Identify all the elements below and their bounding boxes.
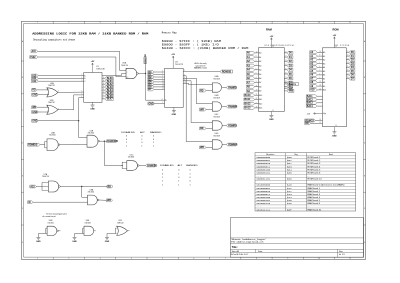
svg-text:74HC32: 74HC32 — [48, 85, 55, 87]
svg-text:BANKWR: BANKWR — [107, 140, 118, 143]
wire U2A output to U1 E1 — [58, 91, 84, 93]
svg-text:Id: 1/1: Id: 1/1 — [339, 254, 345, 256]
svg-text:12: 12 — [347, 55, 349, 57]
note text about banking — [194, 62, 207, 70]
A15 input label to U7A — [30, 185, 37, 188]
svg-text:A8: A8 — [259, 85, 261, 88]
svg-text:A5: A5 — [323, 70, 325, 73]
unused gates note text — [42, 212, 66, 218]
svg-text:74LS00: 74LS00 — [49, 134, 56, 136]
svg-text:B: B — [84, 78, 86, 80]
svg-text:GND: GND — [90, 109, 95, 111]
svg-text:6: 6 — [256, 68, 257, 70]
svg-text:BA11: BA11 — [245, 98, 251, 101]
svg-text:2: 2 — [127, 72, 128, 74]
svg-text:0: 0 — [162, 173, 163, 175]
svg-text:23: 23 — [256, 98, 258, 100]
U6B output label RAMWR — [222, 106, 226, 108]
wire U5B output to BANKWR label — [100, 140, 107, 142]
svg-text:14: 14 — [347, 62, 349, 64]
IO input label to U8A — [28, 201, 33, 204]
ROMDIS output label right of U3 — [220, 70, 233, 73]
wire PHI2 down to U9A input — [38, 57, 126, 77]
svg-text:$05: $05 — [287, 172, 292, 175]
svg-text:ROMCS: ROMCS — [305, 120, 314, 122]
svg-text:A1: A1 — [323, 55, 325, 58]
svg-text:74LS273: 74LS273 — [175, 64, 184, 66]
svg-text:BA11: BA11 — [307, 95, 313, 98]
svg-text:9: 9 — [319, 55, 320, 57]
svg-text:ADDRESSING LOGIC FOR 32KB RAM: ADDRESSING LOGIC FOR 32KB RAM / 31KB BAN… — [32, 32, 148, 37]
svg-text:11: 11 — [161, 99, 163, 101]
svg-text:Title:: Title: — [232, 246, 238, 249]
wire U5C output to BANKED label — [139, 165, 145, 167]
svg-text:%00001101: %00001101 — [256, 178, 271, 181]
svg-text:25: 25 — [256, 85, 258, 87]
svg-text:15: 15 — [347, 66, 349, 68]
U6B input label WR — [200, 108, 207, 111]
svg-text:ROMDIS: ROMDIS — [222, 71, 232, 73]
svg-text:8: 8 — [103, 98, 104, 100]
svg-text:$5F: $5F — [287, 209, 292, 212]
svg-text:74LS00: 74LS00 — [88, 192, 95, 194]
svg-text:RAM bank 4: RAM bank 4 — [308, 196, 321, 199]
svg-text:ROM bank 3: ROM bank 3 — [308, 163, 322, 165]
svg-text:9: 9 — [287, 258, 288, 260]
WR output label — [107, 199, 113, 202]
ROMDIS input label — [28, 143, 40, 146]
svg-text:DISABLED: DISABLED — [121, 132, 135, 135]
svg-text:0: 0 — [162, 170, 163, 172]
bank mode table 2 — [160, 165, 198, 187]
svg-text:Date:: Date: — [258, 250, 263, 253]
svg-text:A15: A15 — [32, 50, 37, 53]
U3 Q0 wire to ROMDIS label — [183, 71, 220, 73]
svg-text:BA13: BA13 — [307, 102, 314, 105]
svg-text:74HC138: 74HC138 — [96, 68, 105, 70]
svg-text:5: 5 — [256, 73, 257, 75]
svg-text:10: 10 — [103, 92, 105, 94]
svg-text:DISABLED: DISABLED — [160, 165, 174, 168]
svg-text:2: 2 — [81, 77, 82, 79]
svg-text:$46: $46 — [287, 202, 292, 205]
U4B ground symbol — [36, 236, 40, 238]
svg-text:BANKED: BANKED — [186, 165, 198, 168]
ROM GND symbol — [333, 127, 335, 132]
svg-text:GND: GND — [72, 241, 77, 243]
global label PHI2 — [30, 56, 38, 59]
svg-text:BA12: BA12 — [245, 103, 252, 106]
svg-text:11: 11 — [349, 22, 351, 24]
ROM chip select labels ROMCS RD — [305, 119, 316, 122]
svg-text:Vpp: Vpp — [323, 113, 326, 115]
svg-text:11: 11 — [162, 81, 164, 83]
svg-text:16: 16 — [347, 70, 349, 72]
svg-text:0: 0 — [189, 177, 190, 179]
U6D output label ROMWR — [222, 144, 226, 146]
svg-text:15: 15 — [285, 68, 287, 70]
svg-text:$8400 - $FFFF : (31KB) BANKED: $8400 - $FFFF : (31KB) BANKED ROM / RAM — [162, 47, 249, 50]
svg-text:Tie the unused gate pins: Tie the unused gate pins — [46, 212, 67, 215]
svg-text:GND: GND — [269, 119, 274, 121]
svg-text:1: 1 — [189, 184, 190, 186]
svg-text:ROM bank 1: ROM bank 1 — [308, 157, 322, 159]
U1 output pins Y0-Y7 with labels — [102, 77, 105, 79]
svg-text:GND: GND — [289, 91, 294, 93]
U6A input label RD — [200, 89, 207, 92]
svg-text:0: 0 — [126, 139, 127, 141]
svg-text:5: 5 — [162, 22, 163, 24]
svg-text:13: 13 — [103, 83, 105, 85]
svg-text:4: 4 — [256, 77, 257, 79]
wire U4A out to U5B — [60, 143, 87, 145]
svg-text:17: 17 — [162, 88, 164, 90]
title block lines — [230, 237, 363, 239]
svg-text:5: 5 — [81, 94, 82, 96]
svg-text:A1: A1 — [259, 56, 261, 59]
wire U5B branch down to U5C input — [104, 141, 122, 165]
svg-text:12: 12 — [285, 56, 287, 58]
U6C input label RD — [200, 127, 207, 130]
svg-text:1: 1 — [178, 184, 179, 186]
svg-text:1: 1 — [37, 258, 38, 260]
svg-text:A8: A8 — [323, 81, 325, 84]
svg-text:1: 1 — [127, 69, 128, 71]
svg-text:74HC32: 74HC32 — [48, 102, 55, 104]
svg-text:8: 8 — [256, 60, 257, 62]
wire U2B output to U1 E2 — [58, 95, 84, 110]
svg-text:10: 10 — [318, 22, 320, 24]
svg-text:Rev:: Rev: — [339, 251, 344, 253]
svg-text:GND: GND — [172, 114, 177, 116]
frame zone ticks left and right — [21, 60, 23, 62]
svg-text:F: F — [364, 208, 365, 210]
svg-text:26: 26 — [256, 107, 258, 109]
svg-text:1: 1 — [153, 145, 154, 147]
svg-text:File: address_logic.kicad_sch: File: address_logic.kicad_sch — [231, 241, 264, 244]
svg-text:15: 15 — [162, 86, 164, 88]
svg-text:13: 13 — [162, 83, 164, 85]
svg-text:GND: GND — [32, 112, 37, 114]
svg-text:A3: A3 — [323, 62, 325, 65]
U3 Q output staircase wires to U6 gates — [183, 76, 212, 142]
svg-text:1: 1 — [162, 184, 163, 186]
svg-text:KiCad E.D.A. 4.0.7: KiCad E.D.A. 4.0.7 — [231, 253, 249, 256]
svg-text:A4: A4 — [259, 69, 261, 72]
svg-text:ROM bank 6: ROM bank 6 — [308, 172, 322, 174]
U2A input label GND — [32, 93, 39, 96]
svg-text:Bank: Bank — [329, 154, 333, 156]
svg-text:1: 1 — [126, 142, 127, 144]
svg-text:20: 20 — [319, 119, 321, 121]
U3 CLR label GND — [148, 102, 155, 105]
svg-text:Size: A4: Size: A4 — [232, 250, 240, 253]
svg-text:10: 10 — [318, 258, 320, 260]
U2D input tie to ground — [114, 228, 116, 233]
wire U8A out to WR label — [99, 199, 107, 201]
svg-text:1: 1 — [162, 181, 163, 183]
svg-text:3: 3 — [162, 71, 163, 73]
U3 Q4 wire to U6A — [183, 83, 212, 84]
U2B input label GND — [32, 111, 39, 114]
U2B input label WR — [32, 106, 37, 109]
ROM data labels D0-D7 — [346, 51, 349, 53]
BANKED output label — [145, 164, 155, 167]
svg-text:5: 5 — [162, 258, 163, 260]
global label GND long net — [32, 119, 39, 122]
svg-text:A3: A3 — [259, 64, 261, 67]
wire A15 to U9A input — [38, 51, 126, 70]
svg-text:BA12: BA12 — [307, 98, 314, 101]
svg-text:A10: A10 — [310, 89, 315, 92]
svg-text:24: 24 — [319, 85, 321, 87]
svg-text:BANKED: BANKED — [147, 164, 157, 167]
svg-text:74HC10: 74HC10 — [121, 65, 128, 67]
svg-text:Sheet: /address_logic/: Sheet: /address_logic/ — [231, 238, 265, 241]
svg-text:12: 12 — [103, 86, 105, 88]
svg-text:22: 22 — [319, 122, 321, 124]
svg-text:ROM bank 14: ROM bank 14 — [308, 179, 323, 181]
svg-text:6: 6 — [193, 258, 194, 260]
svg-text:ALT: ALT — [140, 132, 145, 135]
svg-text:0: 0 — [189, 170, 190, 172]
svg-text:12: 12 — [184, 82, 186, 84]
U6D input label WR — [200, 146, 207, 149]
svg-text:BANKED mode: BANKED mode — [194, 67, 207, 70]
svg-text:ROM bank 5: ROM bank 5 — [308, 169, 322, 171]
svg-text:WR: WR — [200, 147, 204, 149]
svg-text:ROMRD: ROMRD — [228, 125, 237, 127]
svg-text:6: 6 — [184, 77, 185, 79]
vertical clock net wire — [145, 64, 147, 101]
svg-text:Reg: Reg — [294, 154, 297, 156]
svg-text:4: 4 — [81, 91, 82, 93]
svg-text:A15: A15 — [30, 185, 35, 188]
svg-text:2: 2 — [184, 70, 185, 72]
svg-text:9: 9 — [287, 22, 288, 24]
svg-text:Memory Map: Memory Map — [162, 32, 177, 35]
svg-text:13: 13 — [127, 77, 129, 79]
memory map note — [162, 32, 249, 50]
svg-text:7: 7 — [162, 76, 163, 78]
svg-text:A7: A7 — [323, 77, 325, 80]
svg-text:3: 3 — [256, 81, 257, 83]
RAM address input labels — [246, 51, 254, 54]
svg-text:ALT: ALT — [178, 165, 183, 168]
svg-text:6: 6 — [193, 22, 194, 24]
svg-text:BANKWR: BANKWR — [144, 54, 147, 64]
svg-text:PHI2: PHI2 — [30, 57, 36, 59]
svg-text:GND: GND — [32, 121, 37, 123]
svg-text:15: 15 — [103, 77, 105, 79]
svg-text:A0: A0 — [259, 52, 261, 55]
svg-text:3: 3 — [100, 22, 101, 24]
svg-text:14: 14 — [272, 110, 274, 112]
svg-text:A12: A12 — [32, 80, 37, 83]
svg-text:3: 3 — [319, 77, 320, 79]
U6E input tie to ground — [82, 228, 84, 233]
svg-text:1: 1 — [81, 74, 82, 76]
U3 data input labels D0-D7 — [148, 71, 154, 74]
svg-text:RAM bank 1: RAM bank 1 — [308, 187, 321, 190]
svg-text:0: 0 — [141, 136, 142, 138]
svg-text:14: 14 — [285, 64, 287, 66]
svg-text:Decoupling capacitors not draw: Decoupling capacitors not drawn — [33, 39, 76, 42]
svg-text:BANKED: BANKED — [150, 132, 162, 135]
sheet border inner frame — [24, 24, 364, 258]
ROM banked address labels BA11-BA14 — [306, 95, 317, 98]
svg-text:A: A — [84, 74, 86, 77]
svg-text:74LS08: 74LS08 — [213, 135, 220, 137]
wire U9A output junction to clock net — [138, 73, 145, 75]
svg-text:74HC10: 74HC10 — [42, 176, 49, 178]
svg-text:4: 4 — [131, 22, 132, 24]
bank mode table 1 — [121, 132, 161, 148]
svg-text:8: 8 — [319, 58, 320, 60]
svg-text:ROM: ROM — [332, 28, 338, 32]
svg-text:9: 9 — [103, 95, 104, 97]
svg-text:11: 11 — [103, 89, 105, 91]
ROM U11 27C256 body — [323, 48, 347, 127]
svg-text:WR: WR — [32, 107, 36, 109]
RAM GND symbol — [270, 111, 272, 115]
svg-text:1: 1 — [37, 22, 38, 24]
svg-text:16: 16 — [285, 73, 287, 75]
svg-text:1: 1 — [189, 173, 190, 175]
svg-text:0: 0 — [189, 181, 190, 183]
svg-text:27: 27 — [285, 87, 287, 89]
svg-text:9: 9 — [256, 56, 257, 58]
svg-text:0: 0 — [126, 136, 127, 138]
svg-text:20: 20 — [285, 83, 287, 85]
svg-text:A10: A10 — [259, 94, 262, 97]
svg-text:GND: GND — [332, 135, 337, 137]
U1 GND — [92, 102, 94, 105]
svg-text:U10 KM62256B-10PCH: U10 KM62256B-10PCH — [265, 45, 294, 47]
wire U7A out to RD label and U8A — [60, 186, 107, 188]
svg-text:0: 0 — [178, 170, 179, 172]
svg-text:A6: A6 — [259, 77, 261, 80]
svg-text:RD: RD — [200, 90, 204, 92]
svg-text:A11: A11 — [259, 98, 262, 101]
U4B input tie to ground — [45, 228, 47, 233]
svg-text:6: 6 — [81, 96, 82, 98]
bank assignment table — [255, 153, 356, 212]
U5C tied inputs — [121, 162, 123, 169]
svg-text:RAM bank 0 (identical to non-B: RAM bank 0 (identical to non-BANK) — [308, 184, 345, 187]
svg-text:RD: RD — [200, 128, 204, 130]
svg-text:5: 5 — [319, 70, 320, 72]
svg-text:74LS08: 74LS08 — [213, 116, 220, 118]
svg-text:BLK7: BLK7 — [107, 99, 114, 101]
svg-text:+5V: +5V — [333, 35, 337, 37]
svg-text:3: 3 — [100, 258, 101, 260]
svg-text:21: 21 — [256, 94, 258, 96]
U2D ground symbol — [105, 236, 109, 238]
svg-text:74LS00: 74LS00 — [88, 133, 95, 135]
svg-text:GND: GND — [149, 103, 154, 105]
svg-text:0: 0 — [141, 142, 142, 144]
svg-text:BA10: BA10 — [245, 94, 252, 97]
svg-text:0: 0 — [153, 136, 154, 138]
svg-text:of a used circuit: of a used circuit — [42, 215, 56, 218]
svg-text:1: 1 — [178, 173, 179, 175]
svg-text:A2: A2 — [323, 59, 325, 62]
svg-text:7: 7 — [319, 62, 320, 64]
U1 Y0 wire to U9A middle input — [102, 75, 122, 77]
svg-text:1: 1 — [162, 102, 163, 104]
svg-text:14: 14 — [335, 125, 337, 127]
svg-text:BA13: BA13 — [245, 107, 252, 110]
svg-text:+5V: +5V — [307, 113, 311, 115]
svg-text:IO: IO — [28, 202, 31, 204]
RAM data labels D0-D7 — [284, 52, 287, 54]
svg-text:17: 17 — [285, 77, 287, 79]
svg-text:10: 10 — [319, 51, 321, 53]
svg-text:A12: A12 — [259, 102, 262, 105]
svg-text:RAMRD: RAMRD — [228, 86, 237, 89]
svg-text:14: 14 — [103, 80, 105, 82]
svg-text:74LS08: 74LS08 — [213, 97, 220, 99]
svg-text:GND: GND — [32, 95, 37, 97]
svg-text:1: 1 — [141, 145, 142, 147]
svg-text:GND: GND — [36, 241, 41, 243]
svg-text:13: 13 — [285, 60, 287, 62]
svg-text:ROM bank 4: ROM bank 4 — [308, 166, 322, 168]
svg-text:RD: RD — [32, 90, 36, 92]
svg-text:17: 17 — [347, 74, 349, 76]
svg-text:2: 2 — [256, 102, 257, 104]
svg-text:RAM bank 6: RAM bank 6 — [308, 202, 321, 205]
svg-text:RD: RD — [108, 186, 112, 188]
svg-text:RAM bank 31: RAM bank 31 — [308, 208, 323, 211]
svg-text:5: 5 — [184, 74, 185, 76]
title block box — [230, 218, 363, 258]
svg-text:0: 0 — [153, 139, 154, 141]
svg-text:6: 6 — [58, 108, 59, 110]
svg-text:F: F — [22, 208, 23, 210]
svg-text:74HC32: 74HC32 — [117, 222, 124, 224]
RD output label — [107, 185, 113, 188]
svg-text:+5V: +5V — [171, 54, 175, 56]
U3 GND symbol — [173, 107, 175, 110]
wire GND net to U1 E3 and U5B — [38, 120, 78, 122]
svg-text:3: 3 — [81, 80, 82, 82]
svg-text:A0: A0 — [323, 51, 325, 54]
svg-text:ROMWR: ROMWR — [228, 144, 238, 146]
svg-text:10: 10 — [256, 52, 258, 54]
frame zone ticks top and bottom — [52, 21, 54, 23]
BANKWR output label — [107, 140, 118, 143]
svg-text:74LS08: 74LS08 — [213, 78, 220, 80]
svg-text:A9: A9 — [323, 85, 325, 88]
RAM control labels — [284, 83, 287, 85]
svg-text:9: 9 — [184, 79, 185, 81]
svg-text:4: 4 — [131, 258, 132, 260]
svg-text:%01011111: %01011111 — [256, 209, 271, 212]
svg-text:1: 1 — [178, 181, 179, 183]
svg-text:2: 2 — [68, 22, 69, 24]
svg-text:13: 13 — [347, 58, 349, 60]
svg-text:A5: A5 — [259, 73, 261, 76]
svg-text:8: 8 — [256, 258, 257, 260]
svg-text:A10: A10 — [323, 89, 326, 92]
svg-text:7: 7 — [225, 22, 226, 24]
U1 74HC138 decoder body — [84, 73, 102, 103]
svg-text:C: C — [84, 81, 86, 83]
svg-text:WR: WR — [200, 109, 204, 111]
svg-text:A4: A4 — [323, 66, 325, 69]
